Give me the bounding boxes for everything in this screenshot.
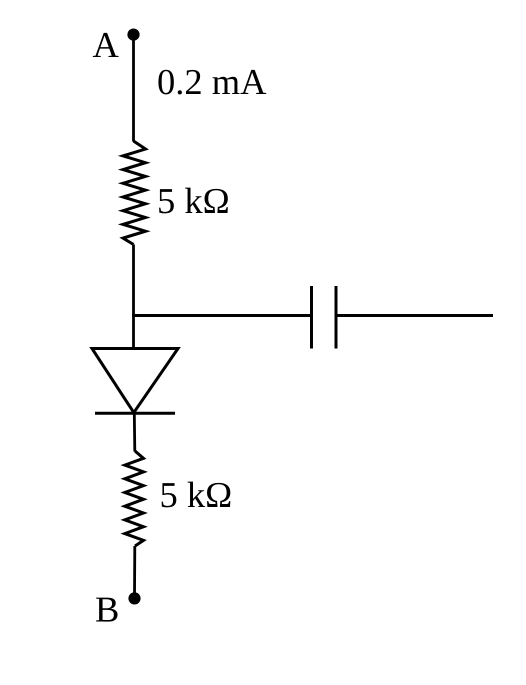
- svg-text:0.2 mA: 0.2 mA: [157, 61, 267, 102]
- node B: [128, 592, 140, 604]
- svg-text:5 kΩ: 5 kΩ: [160, 474, 233, 515]
- diode D1 triangle: [92, 349, 178, 413]
- svg-text:A: A: [93, 24, 120, 65]
- resistor R2: [125, 451, 144, 546]
- resistor R1: [123, 141, 146, 245]
- wire R2 to node B: [133, 546, 136, 597]
- wire R1 to diode: [132, 245, 135, 349]
- wire junction to capacitor: [132, 314, 311, 317]
- wire A to R1: [132, 36, 135, 142]
- svg-text:5 kΩ: 5 kΩ: [157, 180, 230, 221]
- capacitor right plate: [335, 286, 338, 349]
- svg-text:B: B: [95, 588, 119, 629]
- node A: [127, 28, 139, 40]
- wire diode to R2: [133, 413, 136, 451]
- wire capacitor to right edge: [336, 314, 493, 317]
- diode D1 cathode bar: [95, 412, 175, 415]
- capacitor left plate: [310, 286, 313, 349]
